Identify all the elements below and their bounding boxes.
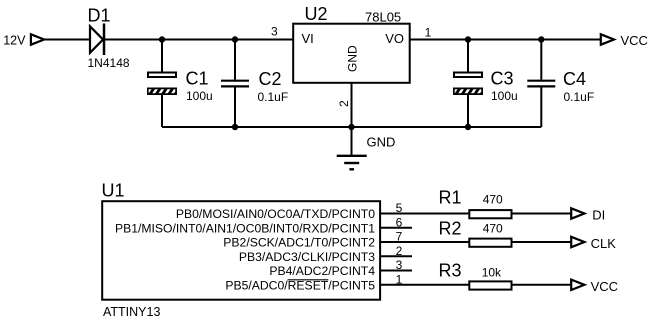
svg-text:U1: U1 [102,181,125,201]
svg-text:GND: GND [367,135,396,150]
svg-text:470: 470 [483,193,503,207]
svg-text:100u: 100u [491,89,518,103]
svg-text:C1: C1 [186,68,209,88]
svg-text:GND: GND [346,45,360,72]
svg-text:5: 5 [396,201,403,215]
svg-text:R2: R2 [439,218,462,238]
svg-text:C2: C2 [259,69,282,89]
svg-text:12V: 12V [3,34,26,48]
svg-text:VCC: VCC [591,279,618,294]
svg-text:VI: VI [302,31,314,46]
svg-text:0.1uF: 0.1uF [258,90,289,104]
svg-text:DI: DI [592,208,605,223]
svg-text:CLK: CLK [591,236,617,251]
svg-text:VCC: VCC [621,33,648,48]
svg-text:100u: 100u [186,89,213,103]
svg-text:2: 2 [337,100,351,107]
svg-text:VO: VO [385,31,404,46]
svg-text:ATTINY13: ATTINY13 [103,305,160,319]
svg-text:C3: C3 [491,68,514,88]
svg-text:1: 1 [425,26,432,40]
svg-text:3: 3 [396,258,403,272]
svg-text:470: 470 [483,221,503,235]
svg-text:7: 7 [396,230,403,244]
svg-text:PB5/ADC0/RESET/PCINT5: PB5/ADC0/RESET/PCINT5 [225,278,375,292]
svg-text:10k: 10k [482,265,502,279]
svg-text:PB0/MOSI/AIN0/OC0A/TXD/PCINT0: PB0/MOSI/AIN0/OC0A/TXD/PCINT0 [176,207,375,221]
svg-text:3: 3 [271,25,278,39]
svg-text:PB3/ADC3/CLKI/PCINT3: PB3/ADC3/CLKI/PCINT3 [239,250,375,264]
svg-text:D1: D1 [88,6,111,26]
svg-text:1N4148: 1N4148 [88,56,130,70]
svg-text:6: 6 [396,215,403,229]
svg-text:R1: R1 [439,188,462,208]
svg-text:2: 2 [396,244,403,258]
svg-text:PB1/MISO/INT0/AIN1/OC0B/INT0/R: PB1/MISO/INT0/AIN1/OC0B/INT0/RXD/PCINT1 [115,221,375,235]
svg-text:C4: C4 [563,69,586,89]
svg-text:R3: R3 [439,260,462,280]
svg-text:U2: U2 [305,4,328,24]
svg-text:0.1uF: 0.1uF [564,90,595,104]
svg-text:PB4/ADC2/PCINT4: PB4/ADC2/PCINT4 [269,264,375,278]
svg-text:78L05: 78L05 [365,10,401,25]
svg-text:1: 1 [396,272,403,286]
svg-text:PB2/SCK/ADC1/T0/PCINT2: PB2/SCK/ADC1/T0/PCINT2 [223,236,375,250]
